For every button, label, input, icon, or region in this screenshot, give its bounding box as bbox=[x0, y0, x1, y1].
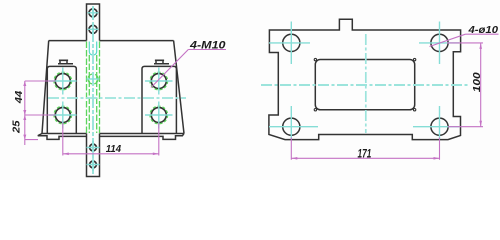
svg-text:4-ø10: 4-ø10 bbox=[467, 24, 498, 36]
svg-text:4-M10: 4-M10 bbox=[189, 39, 227, 51]
svg-text:171: 171 bbox=[358, 147, 372, 161]
svg-text:25: 25 bbox=[12, 120, 23, 134]
svg-text:100: 100 bbox=[472, 72, 483, 93]
svg-text:44: 44 bbox=[14, 90, 25, 104]
svg-text:114: 114 bbox=[106, 143, 121, 155]
